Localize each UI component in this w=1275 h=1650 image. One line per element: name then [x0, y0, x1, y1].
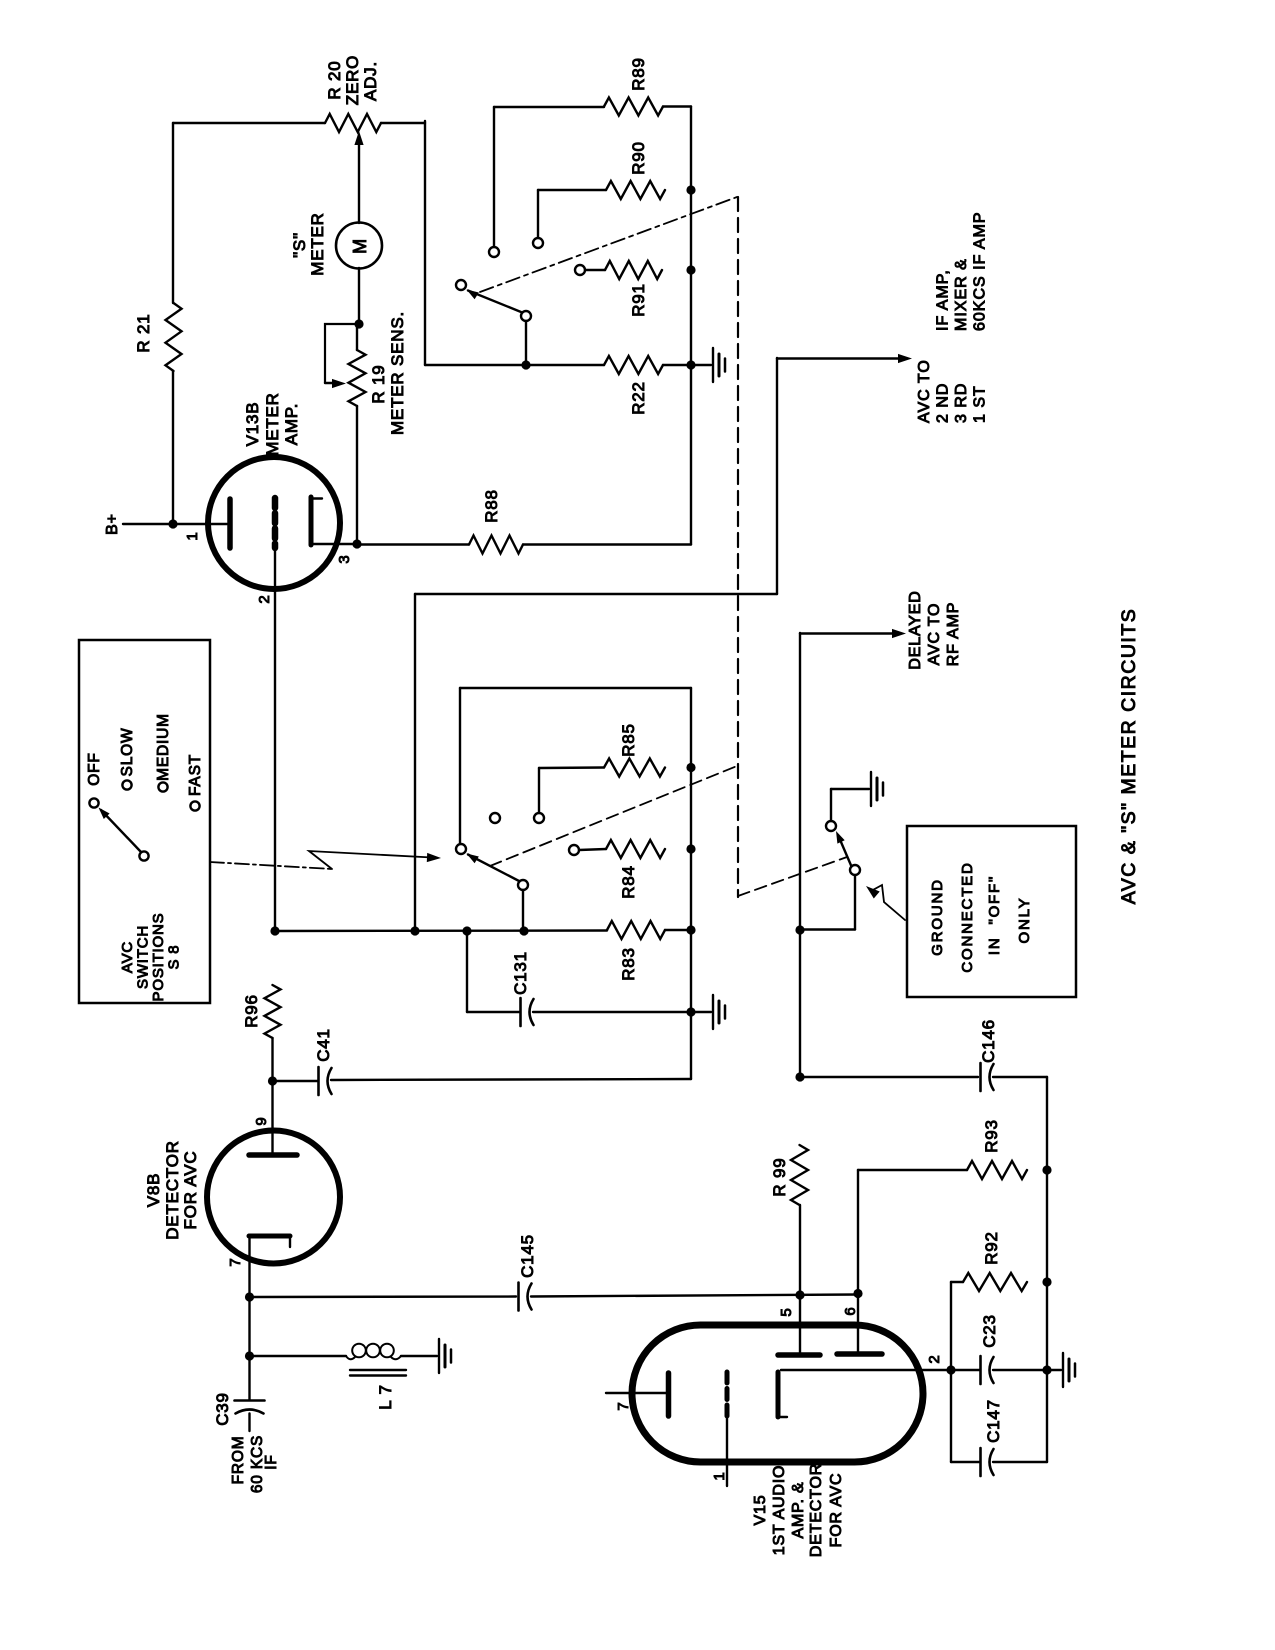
svg-text:R83: R83 — [619, 947, 638, 981]
svg-text:C146: C146 — [979, 1019, 998, 1063]
svg-text:C147: C147 — [984, 1399, 1003, 1443]
svg-text:M: M — [350, 238, 370, 254]
junction — [354, 319, 363, 328]
svg-text:IN "OFF": IN "OFF" — [986, 875, 1003, 955]
cathode V8B — [249, 1234, 290, 1239]
box GROUND CONNECTED IN OFF ONLY — [907, 826, 1076, 997]
resistor R22 — [604, 356, 663, 374]
wire — [173, 122, 325, 124]
junction — [795, 1072, 804, 1081]
gang line S8C — [738, 857, 847, 896]
svg-text:C145: C145 — [518, 1234, 537, 1278]
capacitor C41 — [273, 1080, 319, 1082]
tube V15 envelope — [632, 1325, 923, 1462]
junction — [245, 1292, 254, 1301]
svg-text:SWITCH: SWITCH — [135, 925, 152, 989]
svg-text:AVC: AVC — [119, 941, 136, 973]
junction — [519, 926, 528, 935]
wire — [381, 122, 425, 124]
svg-text:RF AMP: RF AMP — [945, 602, 962, 666]
screen bar2 V15 — [837, 1351, 882, 1357]
junction — [686, 265, 695, 274]
switch S8C arm — [838, 835, 852, 867]
junction — [1042, 1165, 1051, 1174]
svg-text:AVC & "S" METER CIRCUITS: AVC & "S" METER CIRCUITS — [1118, 608, 1140, 905]
wire — [248, 1356, 250, 1400]
svg-text:FOR AVC: FOR AVC — [181, 1151, 200, 1230]
switch S8B arm — [468, 855, 519, 882]
contact — [533, 238, 543, 248]
wire — [830, 789, 832, 821]
wire — [663, 105, 691, 107]
ground — [438, 1339, 440, 1373]
svg-text:ADJ.: ADJ. — [361, 61, 380, 101]
gang line S8A — [480, 197, 737, 292]
wire — [358, 268, 360, 322]
wire bus — [1046, 1077, 1048, 1462]
svg-text:1ST AUDIO: 1ST AUDIO — [771, 1465, 788, 1556]
svg-text:POSITIONS: POSITIONS — [150, 913, 167, 1002]
svg-text:3: 3 — [336, 554, 353, 563]
plate V13B — [227, 499, 233, 548]
junction — [795, 1290, 804, 1299]
contact — [569, 845, 579, 855]
junction — [686, 925, 695, 934]
resistor R88 — [469, 536, 523, 554]
svg-text:GROUND: GROUND — [929, 878, 946, 955]
wire — [250, 1355, 347, 1357]
capacitor C23 — [951, 1369, 980, 1371]
wiper arrow R20 — [358, 145, 360, 223]
wire — [401, 1355, 437, 1357]
inductor L7 — [346, 1356, 355, 1359]
contact SLOW — [122, 780, 131, 789]
wire — [799, 1205, 801, 1295]
resistor R91 — [605, 261, 662, 279]
resistor R93 — [967, 1161, 1027, 1179]
svg-text:R93: R93 — [982, 1119, 1001, 1153]
wire delayed AVC — [799, 633, 801, 1077]
wire — [173, 523, 227, 525]
switch S8A arm — [468, 291, 521, 313]
switch arm S8 panel — [101, 810, 141, 852]
junction — [686, 185, 695, 194]
wire — [250, 1295, 517, 1298]
contact — [490, 813, 500, 823]
svg-text:R96: R96 — [242, 994, 261, 1028]
junction — [686, 360, 695, 369]
svg-text:7: 7 — [227, 1257, 244, 1266]
wire AVC out — [415, 593, 777, 595]
ground — [1062, 1353, 1064, 1387]
wire bus — [690, 107, 692, 545]
potentiometer R20 — [325, 114, 381, 132]
core L7 — [350, 1369, 406, 1371]
cathode V15 — [776, 1372, 781, 1417]
switch S8A wiper — [521, 311, 531, 321]
junction — [1042, 1365, 1051, 1374]
resistor R21 — [166, 303, 182, 371]
contact arm — [139, 851, 148, 860]
svg-text:9: 9 — [253, 1116, 270, 1125]
wire — [424, 121, 426, 365]
junction — [853, 1289, 862, 1298]
wire — [857, 1170, 859, 1294]
junction — [352, 539, 361, 548]
tube V8B envelope — [207, 1131, 340, 1264]
svg-text:AMP. &: AMP. & — [790, 1482, 807, 1539]
wire — [537, 190, 539, 238]
contact MEDIUM — [158, 782, 167, 791]
resistor R84 — [606, 840, 665, 858]
junction — [686, 1007, 695, 1016]
wire bus — [275, 929, 607, 932]
svg-text:7: 7 — [615, 1401, 632, 1410]
svg-text:METER: METER — [308, 212, 327, 276]
wire bus — [425, 364, 604, 366]
svg-text:AVC TO: AVC TO — [926, 603, 943, 666]
wire — [781, 1369, 951, 1371]
resistor R85 — [604, 759, 665, 777]
wire — [466, 931, 468, 1012]
svg-text:CONNECTED: CONNECTED — [959, 861, 976, 972]
resistor R90 — [606, 181, 665, 199]
switch S8B common — [456, 844, 466, 854]
resistor R89 — [604, 98, 663, 116]
wire — [172, 371, 174, 524]
wire — [691, 1011, 711, 1013]
wire — [523, 543, 691, 545]
svg-text:"S": "S" — [290, 232, 309, 258]
svg-text:MEDIUM: MEDIUM — [155, 713, 172, 781]
junction — [521, 360, 530, 369]
svg-text:R85: R85 — [619, 723, 638, 757]
wire — [248, 1414, 250, 1432]
junction — [268, 1076, 277, 1085]
svg-text:R 20: R 20 — [325, 60, 344, 99]
wire — [123, 523, 171, 525]
junction — [946, 1365, 955, 1374]
switch S8C common — [826, 821, 836, 831]
wire — [356, 324, 358, 350]
wire — [726, 1416, 728, 1486]
junction — [270, 926, 279, 935]
plate V15 diode — [666, 1373, 672, 1416]
svg-text:C23: C23 — [980, 1314, 999, 1348]
rheostat bracket R19 — [325, 324, 359, 383]
svg-text:R84: R84 — [619, 865, 638, 899]
svg-text:1 ST: 1 ST — [972, 385, 989, 423]
svg-text:1: 1 — [184, 531, 201, 540]
wire — [356, 406, 358, 543]
wire — [579, 849, 606, 850]
resistor R92 — [963, 1273, 1027, 1291]
capacitor C145 — [517, 1283, 520, 1311]
contact — [534, 813, 544, 823]
svg-text:2 ND: 2 ND — [935, 383, 952, 423]
wire — [271, 1038, 273, 1081]
wire — [311, 543, 357, 545]
svg-text:3 RD: 3 RD — [953, 383, 970, 423]
wire — [414, 594, 416, 928]
wire — [585, 269, 605, 271]
svg-text:OFF: OFF — [86, 752, 103, 785]
wire — [172, 123, 174, 303]
resistor R99 — [791, 1145, 808, 1205]
svg-text:FAST: FAST — [187, 754, 204, 796]
plate V8B — [249, 1152, 297, 1158]
svg-text:R22: R22 — [629, 381, 648, 415]
switch S8C wiper — [850, 865, 860, 875]
svg-text:6: 6 — [842, 1306, 859, 1315]
wire — [531, 1295, 858, 1297]
switch S8B wiper — [518, 880, 528, 890]
svg-text:ZERO: ZERO — [343, 55, 362, 105]
svg-text:R91: R91 — [629, 283, 648, 317]
arrow delayed AVC — [892, 629, 906, 638]
contact FAST — [190, 801, 199, 810]
svg-text:DETECTOR: DETECTOR — [163, 1140, 182, 1240]
junction — [462, 926, 471, 935]
contact — [489, 247, 499, 257]
svg-text:IF AMP,: IF AMP, — [935, 269, 952, 331]
wire — [525, 321, 527, 362]
svg-text:DETECTOR: DETECTOR — [808, 1463, 825, 1557]
wire — [271, 1081, 273, 1154]
wire — [950, 1370, 952, 1462]
resistor R19 — [349, 350, 366, 406]
svg-text:AMP.: AMP. — [282, 403, 301, 446]
wire — [1047, 1369, 1061, 1371]
meter M S-meter — [336, 223, 382, 269]
switch S8A common — [456, 280, 466, 290]
capacitor C131 — [467, 1011, 520, 1013]
svg-text:AVC TO: AVC TO — [916, 359, 933, 423]
pointer to S8C — [871, 885, 905, 920]
wire — [691, 364, 711, 366]
contact OFF — [89, 798, 98, 807]
svg-text:R 19: R 19 — [369, 364, 388, 403]
cathode V13B — [309, 497, 314, 545]
junction — [245, 1351, 254, 1360]
junction — [795, 925, 804, 934]
grid V13B — [272, 498, 279, 548]
capacitor C146 — [800, 1076, 978, 1078]
svg-text:R 99: R 99 — [770, 1157, 789, 1196]
wire — [494, 106, 604, 108]
wire — [951, 1281, 963, 1283]
gang trunk dashed — [737, 197, 739, 897]
svg-text:60KCS IF AMP: 60KCS IF AMP — [972, 211, 989, 331]
junction — [168, 519, 177, 528]
svg-text:FOR AVC: FOR AVC — [828, 1473, 845, 1548]
svg-text:V15: V15 — [752, 1495, 769, 1526]
svg-text:ONLY: ONLY — [1016, 897, 1033, 944]
svg-text:R88: R88 — [482, 489, 501, 523]
tube V13B envelope — [208, 457, 340, 589]
box AVC switch positions — [79, 640, 210, 1003]
svg-text:C39: C39 — [213, 1392, 232, 1426]
wire — [665, 929, 691, 931]
ground — [712, 995, 714, 1029]
wire — [857, 1294, 859, 1355]
gang line S8B — [490, 766, 737, 866]
svg-text:R 21: R 21 — [134, 313, 153, 352]
svg-text:SLOW: SLOW — [119, 728, 136, 777]
pointer to S8B — [210, 862, 332, 869]
wire — [606, 1392, 666, 1394]
svg-text:METER SENS.: METER SENS. — [388, 311, 407, 435]
svg-text:R92: R92 — [982, 1231, 1001, 1265]
svg-text:L 7: L 7 — [376, 1384, 395, 1409]
wire — [459, 688, 461, 844]
ground — [870, 772, 872, 806]
wire — [522, 890, 524, 928]
svg-text:B+: B+ — [104, 513, 121, 535]
svg-text:IF: IF — [263, 1454, 280, 1469]
junction — [686, 763, 695, 772]
wire — [538, 768, 540, 813]
capacitor C147 — [951, 1461, 980, 1463]
junction — [410, 926, 419, 935]
svg-text:R90: R90 — [629, 141, 648, 175]
svg-text:METER: METER — [263, 392, 282, 456]
svg-text:DELAYED: DELAYED — [907, 590, 924, 669]
svg-text:5: 5 — [778, 1307, 795, 1316]
svg-text:MIXER &: MIXER & — [953, 258, 970, 331]
wire — [663, 364, 691, 366]
resistor R96 — [265, 985, 281, 1038]
svg-text:R89: R89 — [629, 57, 648, 91]
svg-text:2: 2 — [256, 594, 273, 603]
screen bar V15 — [778, 1352, 820, 1358]
wire — [248, 1236, 250, 1295]
wire — [357, 543, 469, 545]
svg-text:FROM: FROM — [230, 1436, 247, 1485]
wire — [800, 928, 855, 930]
svg-text:2: 2 — [926, 1354, 943, 1363]
wire — [799, 1295, 801, 1354]
arrow AVC out — [898, 354, 912, 363]
grid V15 — [725, 1372, 730, 1416]
capacitor C39 — [235, 1399, 265, 1402]
wire — [248, 1297, 250, 1354]
svg-text:C41: C41 — [314, 1028, 333, 1062]
svg-text:V8B: V8B — [144, 1173, 163, 1208]
ground — [712, 348, 714, 382]
svg-text:V13B: V13B — [243, 402, 262, 447]
junction — [1042, 1277, 1051, 1286]
svg-text:C131: C131 — [511, 951, 530, 995]
junction — [686, 844, 695, 853]
wire — [274, 547, 276, 931]
svg-text:1: 1 — [711, 1471, 728, 1480]
resistor R83 — [607, 921, 665, 939]
wire bus — [690, 688, 692, 1079]
svg-text:S 8: S 8 — [166, 945, 183, 970]
contact — [575, 265, 585, 275]
